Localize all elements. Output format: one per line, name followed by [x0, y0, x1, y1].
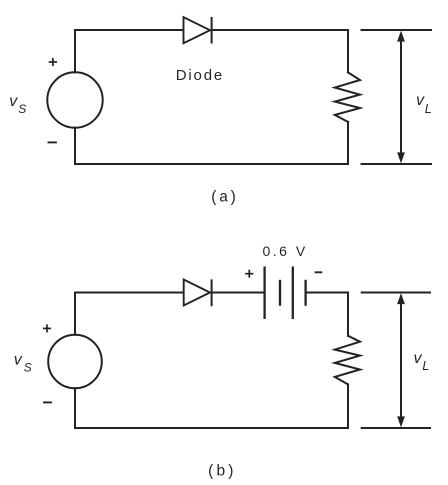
- svg-text:S: S: [18, 102, 26, 116]
- svg-text:v: v: [416, 92, 425, 109]
- svg-text:(b): (b): [208, 463, 237, 480]
- svg-text:v: v: [14, 352, 23, 369]
- svg-text:Diode: Diode: [176, 67, 224, 84]
- svg-text:0.6 V: 0.6 V: [263, 243, 308, 259]
- svg-text:v: v: [414, 350, 423, 367]
- svg-text:v: v: [9, 93, 18, 110]
- svg-text:(a): (a): [211, 189, 238, 206]
- svg-text:L: L: [422, 359, 429, 373]
- svg-text:S: S: [24, 361, 32, 375]
- svg-text:L: L: [425, 102, 432, 116]
